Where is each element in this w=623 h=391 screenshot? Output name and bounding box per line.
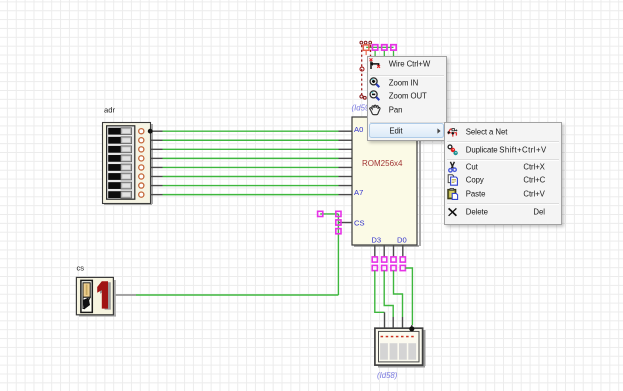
dip-switch adr lever 6 — [108, 173, 131, 180]
ROM bottom pin D0 stub — [402, 245, 404, 257]
svg-text:D0: D0 — [397, 236, 407, 245]
ROM bottom pin D3 stub — [374, 245, 376, 257]
dip-switch adr lever 8 — [108, 191, 131, 198]
display decimal point 5 — [401, 336, 404, 338]
cs switch pin stub — [114, 294, 137, 296]
dip-switch adr lever 2 — [108, 137, 131, 144]
display decimal point 1 — [381, 336, 384, 338]
menu item Delete — [445, 206, 561, 219]
selected wire (red dashed) left — [361, 45, 363, 96]
menu item Cut — [445, 161, 561, 174]
display decimal point 7 — [411, 336, 414, 338]
wire adr pin 7 to ROM A6 — [151, 185, 353, 187]
endpoint square D3 row1 — [372, 257, 377, 262]
endpoint square D1 row1 — [391, 257, 396, 262]
wire D3 to display pin 1 — [375, 271, 385, 328]
junction dot at display top right — [409, 326, 414, 331]
display digit segment 4 — [408, 343, 416, 360]
ROM U1 body — [352, 117, 421, 247]
digit 1 on cs toggle — [97, 281, 111, 309]
display digit segment 3 — [399, 343, 407, 360]
CS net wire vertical — [337, 214, 339, 295]
logic toggle cs body — [76, 277, 116, 316]
svg-text:A7: A7 — [354, 188, 363, 197]
dip-switch adr pin circle 3 — [139, 147, 144, 152]
display body — [375, 328, 426, 367]
endpoint square CS net 3 — [336, 220, 341, 225]
endpoint square on ROM top pin 2 — [372, 45, 377, 56]
open terminal circle 2 above ROM — [364, 41, 367, 44]
open terminal circle at selected wire end — [360, 95, 363, 98]
menu item Zoom IN — [368, 76, 446, 90]
open terminal circle at selected wire end 2 — [363, 96, 366, 99]
endpoint square D2 row2 — [382, 265, 387, 270]
dip-switch adr lever 1 — [108, 128, 131, 135]
endpoint square D2 row1 — [382, 257, 387, 262]
menu item Copy — [445, 174, 561, 187]
dip-switch adr pin circle 6 — [139, 174, 144, 179]
wire adr pin 6 to ROM A5 — [151, 176, 353, 178]
node circle on selected wire — [360, 67, 364, 71]
endpoint square CS net 4 — [336, 229, 341, 234]
menu item Duplicate — [445, 143, 561, 156]
svg-text:(Id58): (Id58) — [377, 371, 398, 380]
CS pin stub — [338, 222, 352, 224]
display decimal point 2 — [386, 336, 389, 338]
selected endpoint square (red) on ROM top pin 1 — [363, 45, 369, 55]
wire adr pin 3 to ROM A2 — [151, 148, 353, 150]
context menu level 1 — [367, 56, 447, 141]
open terminal circle 3 above ROM — [369, 41, 372, 44]
endpoint square on ROM top pin 3 — [382, 45, 387, 56]
selected wire (red dashed) right — [370, 45, 372, 57]
svg-text:ROM256x4: ROM256x4 — [362, 159, 403, 168]
dip-switch adr pin circle 5 — [139, 165, 144, 170]
menu item Pan — [368, 104, 446, 118]
display decimal point 4 — [396, 336, 399, 338]
display digit segment 2 — [390, 343, 398, 360]
ROM bottom pin D2 stub — [383, 245, 385, 257]
wire D2 to display pin 2 — [384, 271, 393, 328]
display digit segment 1 — [380, 343, 388, 360]
dip-switch adr lever 4 — [108, 155, 131, 162]
endpoint square D3 row2 — [372, 265, 377, 270]
dip-switch adr body — [103, 123, 154, 206]
dip-switch adr pin circle 2 — [139, 138, 144, 143]
CS net wire stub horizontal — [320, 213, 338, 215]
endpoint square on ROM top pin 4 — [391, 45, 396, 56]
svg-text:D3: D3 — [371, 236, 381, 245]
menu item Wire — [368, 57, 446, 71]
svg-text:cs: cs — [77, 264, 85, 273]
wire segment along ROM top pins — [366, 46, 393, 48]
wire adr pin 2 to ROM A1 — [151, 139, 353, 141]
dip-switch adr pin circle 4 — [139, 156, 144, 161]
menu item Edit (highlighted) — [368, 123, 446, 138]
menu item Zoom OUT — [368, 90, 446, 104]
dip-switch adr pin circle 8 — [139, 192, 144, 197]
display decimal point 6 — [406, 336, 409, 338]
CS wire from cs switch — [136, 294, 338, 296]
wire D1 to display pin 3 — [394, 271, 403, 328]
wire adr pin 4 to ROM A3 — [151, 157, 353, 159]
wire adr pin 8 to ROM A7 — [151, 194, 353, 196]
dip-switch adr lever 7 — [108, 182, 131, 189]
endpoint square CS net 1 — [318, 211, 323, 216]
open terminal circle 1 above ROM — [360, 41, 363, 44]
endpoint square D0 row1 — [400, 257, 405, 262]
endpoint square CS net 2 — [336, 211, 341, 216]
svg-text:A0: A0 — [354, 125, 363, 134]
wire adr pin 1 to ROM A0 — [151, 130, 353, 132]
wire adr pin 5 to ROM A4 — [151, 166, 353, 168]
dip-switch adr pin circle 1 — [139, 129, 144, 134]
menu item Paste — [445, 187, 561, 200]
endpoint square D0 row2 — [400, 265, 405, 270]
junction dot on A0 wire at adr pin — [148, 129, 153, 134]
endpoint square D1 row2 — [391, 265, 396, 270]
dip-switch adr pin circle 7 — [139, 183, 144, 188]
context submenu level 2 — [444, 122, 562, 225]
dip-switch adr lever 5 — [108, 164, 131, 171]
svg-text:CS: CS — [354, 219, 365, 228]
wire D0 to display pin 4 — [405, 268, 412, 328]
display decimal point 3 — [391, 336, 394, 338]
ROM bottom pin D1 stub — [393, 245, 395, 257]
dip-switch adr lever 3 — [108, 146, 131, 153]
svg-text:adr: adr — [104, 106, 115, 115]
menu item Select a Net — [445, 125, 561, 138]
